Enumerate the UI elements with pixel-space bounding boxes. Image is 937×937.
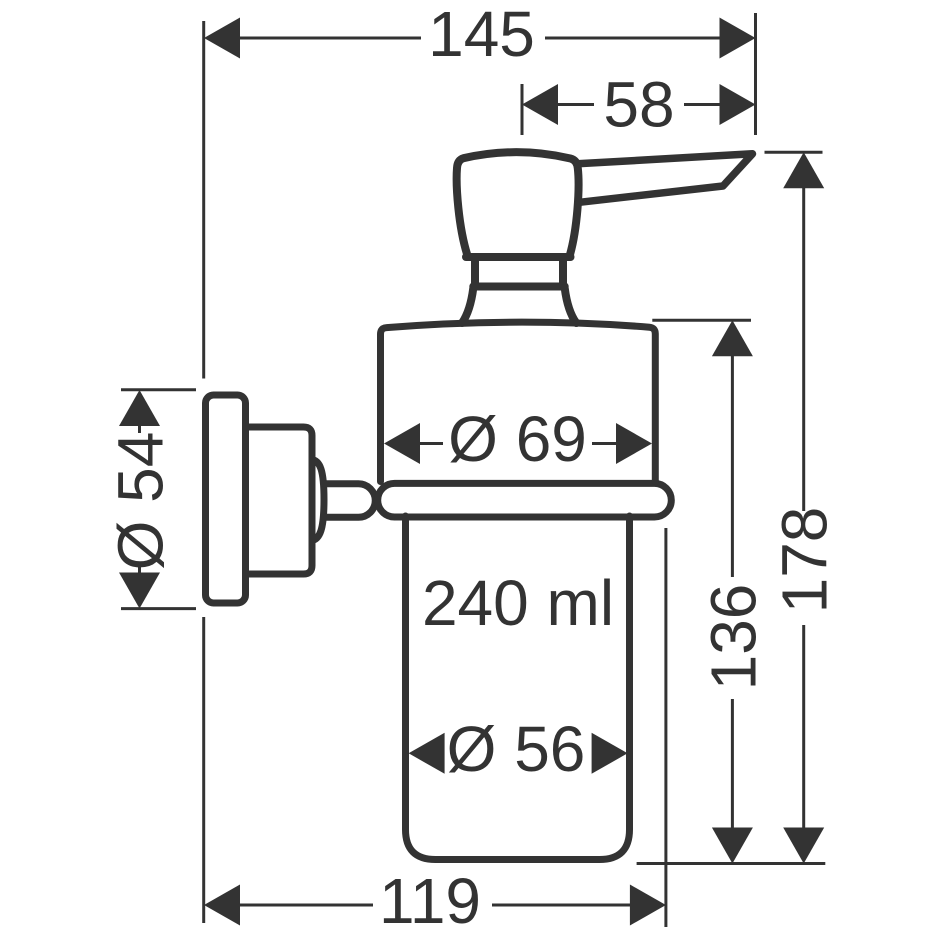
ext 119 right	[664, 528, 667, 927]
holder arm	[324, 484, 375, 518]
arrow 178 up	[783, 152, 824, 188]
svg-text:Ø 56: Ø 56	[447, 713, 586, 785]
svg-text:178: 178	[769, 507, 841, 614]
arrow dia54 down	[119, 573, 160, 609]
arrow dia69 right	[616, 423, 652, 464]
pump neck bottom line	[473, 283, 564, 291]
spout lever	[578, 154, 753, 203]
svg-text:119: 119	[379, 865, 481, 937]
collar ring	[378, 483, 672, 517]
svg-text:136: 136	[697, 584, 769, 691]
body cup	[381, 322, 656, 481]
mount cylinder	[244, 427, 312, 574]
ext line left tall	[202, 21, 205, 379]
arrow dia54 up	[119, 390, 160, 426]
arrow 178 down	[783, 828, 824, 864]
arrow 136 up	[712, 320, 753, 356]
svg-text:58: 58	[603, 69, 674, 141]
tick dia54 bottom	[121, 607, 196, 610]
wall plate	[206, 395, 246, 603]
dim line 58	[558, 103, 720, 106]
tick dia54 top	[121, 388, 196, 391]
pump neck right side	[559, 258, 567, 287]
arrow 145 left	[204, 18, 240, 59]
mount pivot bump	[312, 460, 325, 541]
pump head bottom line	[466, 253, 571, 261]
arrow dia69 left	[384, 423, 420, 464]
pump neck left side	[471, 258, 479, 287]
dim line 136	[731, 356, 734, 828]
arrow dia56 right	[592, 733, 628, 774]
arrow 136 down	[712, 828, 753, 864]
dim line 145	[240, 37, 720, 40]
ext 119 left	[202, 617, 205, 923]
arrow 58 left	[522, 84, 558, 125]
arrow 119 left	[204, 885, 240, 926]
dim line dia54	[138, 424, 141, 574]
arrow 145 right	[720, 18, 756, 59]
tick bottom shared	[637, 862, 826, 865]
pump head body	[457, 152, 579, 255]
dim line dia69	[420, 442, 616, 445]
ext line right shared	[754, 13, 757, 135]
pump skirt left flare	[462, 288, 473, 323]
svg-text:Ø 54: Ø 54	[105, 432, 177, 571]
ext line 58 left	[521, 84, 524, 135]
arrow 58 right	[720, 84, 756, 125]
svg-text:145: 145	[428, 0, 535, 70]
tick 136 top	[652, 319, 751, 322]
svg-text:240 ml: 240 ml	[422, 567, 614, 639]
pump skirt right flare	[565, 288, 577, 323]
arrow 119 right	[630, 885, 666, 926]
tick 178 top	[765, 151, 823, 154]
arrow dia56 left	[409, 733, 445, 774]
dim line 178	[802, 188, 805, 828]
svg-text:Ø 69: Ø 69	[448, 403, 587, 475]
dim line 119	[240, 904, 630, 907]
bottle	[406, 516, 630, 860]
